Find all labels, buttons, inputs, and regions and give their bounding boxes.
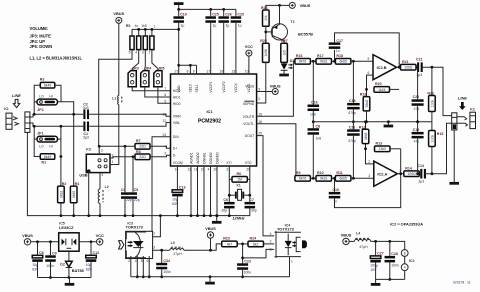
svg-text:3: 3 bbox=[142, 51, 144, 55]
svg-text:HI: HI bbox=[49, 145, 52, 149]
svg-text:R23: R23 bbox=[223, 237, 230, 241]
wire JP1/R1 right node riser to R2 bbox=[58, 125, 63, 186]
svg-text:4k7: 4k7 bbox=[227, 242, 233, 246]
svg-text:C34: C34 bbox=[163, 259, 170, 263]
svg-text:XTI: XTI bbox=[226, 161, 231, 165]
svg-text:JP5: DOWN: JP5: DOWN bbox=[30, 44, 53, 49]
svg-text:2: 2 bbox=[128, 259, 130, 263]
wire IC5 output to VCC bbox=[79, 240, 96, 243]
svg-text:C25: C25 bbox=[212, 12, 219, 16]
svg-text:IC1: IC1 bbox=[206, 109, 213, 114]
svg-text:100Ω: 100Ω bbox=[407, 172, 416, 176]
svg-text:R26: R26 bbox=[261, 6, 268, 10]
wire base node to T1 base bbox=[266, 31, 273, 33]
wire VCC to IC1 pin 10 bbox=[248, 56, 250, 74]
svg-text:HID2: HID2 bbox=[173, 89, 181, 93]
ground (op-amp supply) bbox=[371, 279, 381, 285]
resistor R18 6k65 bbox=[335, 54, 351, 64]
wire riser ring to JP1/R1 left bbox=[33, 125, 41, 157]
svg-text:3k92: 3k92 bbox=[72, 191, 76, 198]
resistor R8 22R in D- line bbox=[135, 150, 150, 160]
svg-text:13k0: 13k0 bbox=[379, 147, 386, 151]
resistor R5 element pin 5 bbox=[129, 29, 134, 54]
wire riser tip to R3/JP2 left bbox=[33, 85, 41, 116]
svg-text:4x: 4x bbox=[135, 24, 139, 28]
wire K3 shield to ground rail bbox=[87, 171, 90, 217]
svg-text:R12: R12 bbox=[359, 125, 366, 129]
svg-text:100k: 100k bbox=[430, 135, 434, 143]
arrow signal-flow into K1 bbox=[13, 99, 19, 107]
svg-text:36k8: 36k8 bbox=[364, 133, 368, 140]
ground (op-amp rail) bbox=[384, 120, 394, 127]
svg-text:C10: C10 bbox=[332, 188, 339, 192]
svg-text:5: 5 bbox=[164, 100, 166, 104]
svg-text:JP3: MUTE: JP3: MUTE bbox=[30, 34, 52, 39]
svg-text:R25: R25 bbox=[260, 39, 267, 43]
svg-text:LO: LO bbox=[39, 94, 44, 98]
connector K3 USB-B bbox=[86, 148, 110, 173]
inductor L1 (ferrite bead in VBUS line) bbox=[112, 96, 122, 105]
svg-text:R1: R1 bbox=[42, 161, 47, 165]
svg-text:IC2 = OPA2353UA: IC2 = OPA2353UA bbox=[390, 221, 423, 226]
jumper JP3 (mute) bbox=[128, 66, 139, 86]
svg-text:36k8: 36k8 bbox=[365, 100, 369, 107]
svg-text:R18: R18 bbox=[336, 54, 343, 58]
svg-text:9: 9 bbox=[193, 70, 195, 74]
svg-text:1: 1 bbox=[164, 145, 166, 149]
svg-text:DGND3: DGND3 bbox=[215, 152, 219, 164]
crystal X1 12MHz bbox=[228, 184, 251, 201]
svg-text:4: 4 bbox=[208, 167, 210, 171]
wire C1 to VINL pin 12 bbox=[89, 123, 170, 127]
wire VBUS to L3 line bbox=[210, 238, 212, 250]
svg-text:R24: R24 bbox=[250, 237, 257, 241]
svg-text:VCCX: VCCX bbox=[234, 83, 238, 93]
svg-text:2: 2 bbox=[149, 51, 151, 55]
wire R5 pin4 to JP3 bbox=[132, 50, 139, 71]
svg-text:C21: C21 bbox=[416, 58, 423, 62]
wire R8 to IC1 D- pin 2 bbox=[150, 155, 171, 157]
svg-text:1n8: 1n8 bbox=[316, 137, 322, 141]
power VBUS (optical section) bbox=[205, 226, 216, 238]
svg-text:VBUS: VBUS bbox=[270, 83, 281, 88]
wire K1 ring to C1 line bbox=[30, 123, 83, 126]
svg-text:R20: R20 bbox=[375, 82, 382, 86]
svg-text:R22: R22 bbox=[427, 91, 434, 95]
svg-text:47p: 47p bbox=[414, 107, 420, 111]
capacitor C26 1u (VCCP2 decoupling) bbox=[218, 9, 231, 74]
capacitor C4 22p on D+ bbox=[121, 146, 132, 217]
svg-text:C7: C7 bbox=[249, 198, 254, 202]
capacitor C8 10u 63V (reg input) bbox=[32, 242, 43, 278]
power VBUS (top left) bbox=[113, 11, 124, 23]
wire R19 to ground rail bbox=[365, 111, 368, 123]
wire R5 pin5 to USB D+ line (1k5 pull-up) bbox=[99, 50, 132, 147]
svg-text:C17: C17 bbox=[336, 39, 343, 43]
wire TORX ground pin to middle rail bbox=[152, 214, 162, 236]
junction R23/R24/C23 bbox=[237, 243, 248, 246]
svg-text:HID0: HID0 bbox=[173, 102, 181, 106]
wire VBUS to L4 bbox=[349, 240, 354, 242]
diode D2 BAT85 bbox=[60, 251, 84, 279]
svg-text:L1: L1 bbox=[112, 97, 116, 101]
svg-text:5k76: 5k76 bbox=[299, 177, 306, 181]
svg-text:100n: 100n bbox=[391, 264, 399, 268]
svg-text:C12: C12 bbox=[93, 251, 100, 255]
svg-text:23: 23 bbox=[232, 70, 236, 74]
wire VOUTR pin 15 to R16 bbox=[257, 61, 295, 116]
svg-text:HI: HI bbox=[49, 94, 52, 98]
wire output junction bbox=[397, 66, 401, 69]
capacitor C15 47p load bbox=[412, 120, 424, 173]
svg-text:D2: D2 bbox=[60, 262, 65, 266]
svg-text:3: 3 bbox=[153, 246, 155, 250]
resistor R5 element pin 2 bbox=[149, 29, 155, 54]
svg-text:VCC: VCC bbox=[245, 44, 253, 49]
svg-text:C8: C8 bbox=[316, 125, 321, 129]
junction R17/R18/C17 bbox=[332, 60, 336, 63]
connector K2 stereo line output jack bbox=[452, 107, 476, 130]
svg-text:30p: 30p bbox=[251, 209, 257, 213]
svg-text:D+: D+ bbox=[173, 147, 177, 151]
resistor R27 1k5 (collector) bbox=[281, 39, 288, 62]
svg-text:JP1: JP1 bbox=[37, 132, 43, 136]
svg-text:K3: K3 bbox=[86, 148, 91, 152]
resistor R24 8k2 bbox=[248, 237, 264, 247]
svg-text:R2: R2 bbox=[62, 182, 67, 186]
svg-text:63V: 63V bbox=[172, 202, 179, 206]
ground (below D1) bbox=[279, 70, 289, 76]
svg-text:10V: 10V bbox=[370, 268, 377, 272]
wire R2 to ground rail bbox=[60, 203, 63, 217]
svg-text:USB: USB bbox=[79, 173, 87, 178]
svg-text:C13: C13 bbox=[179, 185, 186, 189]
wire R7 to IC1 D+ pin 1 bbox=[150, 146, 171, 148]
svg-text:2: 2 bbox=[164, 152, 166, 156]
wire XTO pin 20 column bbox=[249, 166, 251, 202]
svg-text:TORX173: TORX173 bbox=[126, 225, 144, 230]
inductor L2 ferrite bead in USB ground bbox=[98, 185, 109, 203]
junction R18/C18/opamp+ bbox=[351, 60, 373, 63]
svg-text:8k2: 8k2 bbox=[253, 242, 259, 246]
svg-text:R14: R14 bbox=[405, 166, 412, 170]
op-amp IC2.A bbox=[368, 160, 401, 186]
resistor R11 6k65 bbox=[335, 171, 351, 181]
wire JP5 to HID0 pin 5 bbox=[158, 87, 171, 104]
svg-text:1μ: 1μ bbox=[213, 24, 217, 28]
junction R16/R17/C16 bbox=[310, 60, 316, 63]
wire L1 to K3 pin1 row bbox=[110, 105, 119, 165]
svg-text:3μ3: 3μ3 bbox=[83, 106, 89, 110]
pin numbers TORX bottom bbox=[128, 259, 148, 263]
svg-text:470p: 470p bbox=[348, 139, 356, 143]
svg-text:25: 25 bbox=[258, 132, 262, 136]
resistor R16 5k76 bbox=[295, 54, 311, 64]
svg-text:C15: C15 bbox=[413, 128, 420, 132]
svg-text:47μH: 47μH bbox=[173, 252, 182, 256]
svg-text:1: 1 bbox=[154, 24, 156, 28]
svg-text:63V: 63V bbox=[32, 267, 39, 271]
svg-text:22Ω: 22Ω bbox=[139, 145, 146, 149]
svg-text:6: 6 bbox=[164, 93, 166, 97]
ground (regulator) bbox=[65, 278, 75, 286]
svg-text:6k49: 6k49 bbox=[44, 84, 51, 88]
svg-text:R3: R3 bbox=[40, 78, 45, 82]
capacitor C14 3u3 output bbox=[417, 164, 426, 183]
svg-text:12MHz: 12MHz bbox=[232, 215, 244, 220]
svg-text:JP2: JP2 bbox=[37, 108, 43, 112]
IC IC1 PCM2902 body bbox=[171, 74, 257, 166]
wire JP4 to HID1 pin 6 bbox=[145, 87, 171, 97]
svg-text:1μ: 1μ bbox=[226, 24, 230, 28]
resistor R21 100R output bbox=[401, 60, 417, 70]
capacitor C6 30p bbox=[221, 198, 234, 216]
svg-text:6k65: 6k65 bbox=[339, 60, 346, 64]
svg-text:R6: R6 bbox=[237, 172, 242, 176]
svg-text:9k31: 9k31 bbox=[320, 177, 327, 181]
capacitor C1 3u3 left channel input bbox=[83, 122, 89, 140]
svg-text:VCC: VCC bbox=[96, 233, 104, 238]
svg-text:R5: R5 bbox=[126, 24, 131, 28]
svg-text:C11: C11 bbox=[349, 125, 355, 129]
resistor R9 5k76 bbox=[295, 171, 311, 181]
junction R11/C11/opamp+ bbox=[351, 177, 374, 180]
svg-text:5: 5 bbox=[129, 51, 131, 55]
svg-text:LO: LO bbox=[39, 145, 44, 149]
junction K3 shield pin bbox=[87, 169, 91, 173]
svg-text:T1: T1 bbox=[291, 20, 295, 24]
capacitor C17 1n feedback bbox=[329, 33, 399, 67]
svg-text:VBUS: VBUS bbox=[245, 85, 255, 89]
svg-text:DOUT: DOUT bbox=[245, 134, 254, 138]
svg-text:AGND2: AGND2 bbox=[196, 152, 200, 164]
svg-text:17: 17 bbox=[206, 70, 210, 74]
svg-text:LINE: LINE bbox=[12, 93, 21, 98]
svg-text:VINR: VINR bbox=[173, 115, 181, 119]
wire TOTX pin 3 loop bbox=[243, 249, 275, 258]
svg-text:R13: R13 bbox=[376, 142, 383, 146]
svg-text:JP4: JP4 bbox=[145, 66, 151, 70]
svg-text:D-: D- bbox=[173, 154, 176, 158]
svg-text:DGND2: DGND2 bbox=[209, 152, 213, 164]
svg-text:100μ: 100μ bbox=[370, 263, 378, 267]
svg-text:LINE: LINE bbox=[458, 95, 467, 100]
svg-text:HID1: HID1 bbox=[173, 96, 181, 100]
wire R5 pin2 to JP5 bbox=[152, 50, 158, 71]
svg-text:VBUS: VBUS bbox=[113, 11, 124, 16]
ground (top rail) bbox=[174, 2, 184, 9]
capacitor C8 1n8 to ground bbox=[308, 122, 322, 179]
svg-text:JP3: JP3 bbox=[132, 66, 138, 70]
capacitor C2 3u3 right channel input bbox=[83, 102, 89, 119]
svg-text:47μH: 47μH bbox=[359, 245, 368, 249]
svg-text:K1: K1 bbox=[4, 107, 9, 111]
svg-text:R19: R19 bbox=[360, 93, 367, 97]
transistor T1 BC557B PNP bbox=[271, 5, 313, 43]
wire K3 pin2 D- to R8 bbox=[110, 155, 135, 158]
resistor R2 3k92 shunt bbox=[58, 182, 67, 203]
junction R10/R11/C10 bbox=[332, 177, 336, 180]
svg-text:6: 6 bbox=[367, 71, 369, 75]
wire top ground rail bbox=[177, 8, 236, 11]
svg-text:TOTX173: TOTX173 bbox=[277, 227, 295, 232]
wire output junction IC2.A bbox=[397, 172, 403, 175]
junction R9/R10/C8 bbox=[310, 177, 316, 180]
capacitor C22 47p load bbox=[412, 67, 424, 123]
power VBUS (op-amp supply) bbox=[341, 233, 352, 245]
power VCC (to pin 10) bbox=[245, 44, 253, 56]
svg-text:4: 4 bbox=[102, 173, 104, 177]
resistor R22 100k load bbox=[427, 67, 435, 122]
wire JP3 to HID2 pin 7 bbox=[132, 87, 170, 91]
ground (K2) bbox=[449, 182, 459, 185]
svg-text:IC2.B: IC2.B bbox=[377, 65, 387, 70]
wire R25 to SSPND pin 2 bbox=[257, 62, 266, 103]
wire analog ground rail (op-amp area) bbox=[313, 121, 432, 123]
capacitor C13 10u 63V (VCOM) bbox=[172, 166, 185, 217]
svg-text:8: 8 bbox=[187, 70, 189, 74]
wire R24 to TOTX input pin 2 bbox=[264, 243, 275, 245]
wire XTI pin 21 column bbox=[228, 166, 230, 202]
wire IC2 supply ground rail bbox=[376, 278, 405, 280]
capacitor C12 10u 63V (reg output) bbox=[86, 242, 99, 278]
svg-text:SSPND: SSPND bbox=[243, 102, 255, 106]
capacitor C27 100u 10V bbox=[370, 241, 383, 279]
svg-text:8: 8 bbox=[404, 251, 406, 255]
capacitor C7 30p bbox=[245, 198, 257, 213]
resistor R4 3k92 shunt bbox=[70, 182, 79, 203]
svg-text:C26: C26 bbox=[225, 12, 232, 16]
wire K3 pin3 D+ up to D+ line bbox=[98, 145, 101, 154]
wire IC1 ground pins to rail bbox=[190, 166, 219, 217]
IC2 supply pins symbol bbox=[401, 250, 414, 280]
capacitor C18 470p to ground bbox=[347, 61, 360, 123]
svg-text:C8: C8 bbox=[39, 251, 44, 255]
svg-text:100n: 100n bbox=[244, 271, 252, 275]
svg-text:AGND1: AGND1 bbox=[189, 152, 193, 164]
wire K3 pin4 to L2 bbox=[99, 173, 101, 189]
svg-text:L1, L2 = BLM31AJ601SN1L: L1, L2 = BLM31AJ601SN1L bbox=[30, 56, 83, 61]
svg-text:4: 4 bbox=[404, 266, 406, 270]
inductor L3 47uH bbox=[170, 241, 184, 256]
wire R13 to output node bbox=[390, 148, 401, 150]
svg-text:4: 4 bbox=[135, 51, 137, 55]
svg-text:IC2: IC2 bbox=[409, 259, 415, 263]
svg-text:IC2.A: IC2.A bbox=[377, 172, 387, 177]
svg-text:2: 2 bbox=[258, 97, 260, 101]
svg-text:VCOM: VCOM bbox=[173, 161, 183, 165]
svg-text:R21: R21 bbox=[402, 60, 409, 64]
svg-text:1: 1 bbox=[399, 169, 401, 173]
svg-text:VCCP1: VCCP1 bbox=[209, 81, 213, 92]
capacitor C21 3u3 output bbox=[416, 58, 423, 77]
svg-text:30p: 30p bbox=[221, 209, 227, 213]
svg-text:C27: C27 bbox=[377, 252, 384, 256]
svg-text:3: 3 bbox=[368, 174, 370, 178]
ground (middle rail) bbox=[212, 214, 222, 223]
capacitor C19 1u (VDD decoupling) bbox=[173, 9, 186, 74]
svg-text:VBUS: VBUS bbox=[300, 3, 311, 8]
wire DIN pin 24 to TORX output bbox=[152, 137, 171, 231]
svg-text:VBUS: VBUS bbox=[341, 233, 352, 238]
svg-text:R9: R9 bbox=[296, 171, 301, 175]
svg-text:C18: C18 bbox=[349, 99, 356, 103]
svg-text:JP4: UP: JP4: UP bbox=[30, 39, 46, 44]
wire TORX case pins to bottom rail bbox=[131, 256, 151, 278]
svg-text:X1: X1 bbox=[236, 184, 240, 188]
svg-text:C28: C28 bbox=[391, 252, 398, 256]
svg-text:3μ3: 3μ3 bbox=[83, 136, 89, 140]
svg-text:R8: R8 bbox=[136, 150, 141, 154]
svg-text:R15: R15 bbox=[437, 132, 444, 136]
wire opamp- to R20/R19 node bbox=[365, 75, 373, 97]
svg-text:1: 1 bbox=[112, 160, 114, 164]
resistor R14 100R output bbox=[404, 166, 420, 176]
op-amp IC2.B bbox=[367, 55, 400, 80]
svg-text:27: 27 bbox=[175, 70, 179, 74]
resistor R3 6k49 bbox=[40, 78, 55, 88]
resistor array R5 4x 1k5 common rail bbox=[126, 24, 179, 31]
svg-text:XTO: XTO bbox=[245, 161, 252, 165]
svg-text:VOLUME:: VOLUME: bbox=[30, 26, 49, 31]
wire middle ground rail extension to crystal caps bbox=[228, 208, 250, 217]
svg-text:BAT85: BAT85 bbox=[72, 268, 85, 273]
connector K1 stereo line input jack bbox=[4, 107, 30, 133]
wire R5 pin3 to JP4 bbox=[144, 50, 147, 71]
svg-text:12: 12 bbox=[163, 119, 167, 123]
svg-text:R7: R7 bbox=[136, 139, 141, 143]
svg-text:10k: 10k bbox=[264, 15, 268, 21]
jumper JP4 (up) bbox=[141, 66, 152, 86]
svg-text:DGND1: DGND1 bbox=[202, 152, 206, 164]
inductor L4 47uH bbox=[354, 232, 370, 249]
resistor R5 element pin 3 bbox=[142, 29, 148, 54]
ground (optical rail) bbox=[205, 277, 215, 285]
wire VBUS to IC5 input bbox=[31, 240, 59, 243]
svg-text:1M: 1M bbox=[237, 178, 242, 182]
svg-text:SEL1: SEL1 bbox=[195, 84, 199, 92]
svg-text:6k65: 6k65 bbox=[339, 177, 346, 181]
svg-text:470p: 470p bbox=[348, 111, 356, 115]
svg-text:47p: 47p bbox=[414, 140, 420, 144]
power VBUS (top right) bbox=[289, 2, 311, 8]
jumper JP2 input level select bbox=[37, 94, 58, 112]
svg-text:9k31: 9k31 bbox=[320, 60, 327, 64]
wire DOUT pin 25 to TOTX pin 4 bbox=[257, 136, 275, 236]
svg-text:C23: C23 bbox=[244, 260, 251, 264]
resistor R13 1k24 feedback bbox=[375, 142, 391, 152]
svg-text:1: 1 bbox=[153, 231, 155, 235]
svg-text:R11: R11 bbox=[336, 171, 342, 175]
svg-text:4: 4 bbox=[135, 259, 137, 263]
wire R4 to ground rail bbox=[72, 203, 75, 217]
svg-text:6: 6 bbox=[147, 259, 149, 263]
wire VOUTL pin 16 to R9 bbox=[257, 124, 296, 179]
svg-text:5: 5 bbox=[141, 259, 143, 263]
wire K1 tip to C2 line bbox=[30, 114, 83, 117]
svg-text:1k96: 1k96 bbox=[264, 49, 268, 56]
svg-text:10: 10 bbox=[245, 70, 249, 74]
svg-text:3: 3 bbox=[270, 247, 272, 251]
svg-text:C19: C19 bbox=[180, 12, 187, 16]
svg-text:PCM2902: PCM2902 bbox=[198, 119, 221, 125]
wire SEL0/SEL1 tie to VDD bbox=[179, 64, 197, 74]
capacitor C10 1n feedback bbox=[329, 149, 401, 208]
svg-text:1n: 1n bbox=[333, 200, 337, 204]
svg-text:VOUTR: VOUTR bbox=[243, 115, 255, 119]
wire C14 to K2 ring (left channel out) bbox=[416, 123, 452, 175]
resistor R17 9k31 bbox=[316, 54, 332, 64]
